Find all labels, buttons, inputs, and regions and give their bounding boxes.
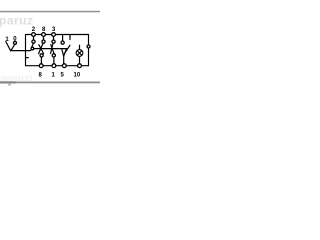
svg-text:paruz: paruz xyxy=(0,14,34,28)
svg-text:10: 10 xyxy=(74,73,81,79)
